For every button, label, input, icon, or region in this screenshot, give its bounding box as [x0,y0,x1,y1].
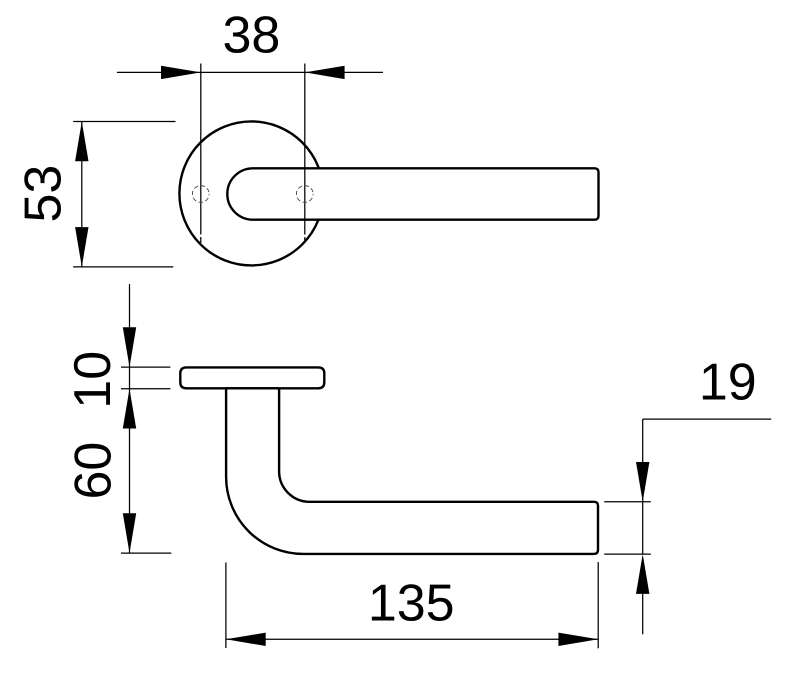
svg-text:19: 19 [699,354,757,412]
svg-text:53: 53 [15,165,73,223]
svg-text:135: 135 [368,574,455,632]
dim 60 dimension line [129,389,131,553]
dim 19 extension line top [604,501,651,503]
dim 38 left arrow [161,66,201,79]
dim 10 upper arrow (pointing down) [123,327,136,367]
side view plate bottom edge over neck [226,387,279,389]
dim 19 lower leader vertical [642,594,644,634]
dim 38 dimension line [117,71,383,73]
dim 19 lower arrow (pointing up) [636,554,649,594]
svg-text:60: 60 [64,442,122,500]
dim 19 upper arrow (pointing down) [636,462,649,502]
dim 19 upper leader vertical [642,419,644,502]
dim 10 extension line bottom [121,388,170,390]
screw hole left (dashed circle) [192,186,209,203]
side view handle neck and lever [226,388,598,554]
svg-text:10: 10 [64,351,122,409]
dim 135 left arrow [226,633,266,646]
dim 53 top arrow [75,122,88,162]
dim 60 top arrow (pointing up) [123,389,136,429]
side view rose plate [180,367,324,388]
dim 135 extension line right [597,562,599,648]
dim 53 extension line bottom [73,266,173,268]
dim 38 right arrow [305,66,345,79]
dim 135 right arrow [558,633,598,646]
dim 135 extension line left [225,563,227,649]
screw hole centerline right [304,64,306,244]
dim 53 dimension line [81,122,83,267]
screw hole centerline left [200,64,202,244]
svg-text:38: 38 [222,6,280,64]
dim 53 bottom arrow [75,227,88,267]
dim 60 bottom arrow (pointing down) [123,513,136,553]
dim 19 extension line bottom [604,553,651,555]
top view rose circle [179,121,323,265]
dim 135 dimension line [226,638,598,640]
dim 10 line between extension lines [129,367,131,389]
dim 53 extension line top [73,121,175,123]
screw hole right (dashed circle) [296,186,313,203]
top view lever handle [227,168,598,219]
dim 10 upper leader line [129,284,131,367]
dim 10 extension line top [121,366,170,368]
dim 19 leader horizontal line [643,418,772,420]
dim 19 line between extension lines [642,502,644,554]
dim 60 extension line bottom [121,552,171,554]
